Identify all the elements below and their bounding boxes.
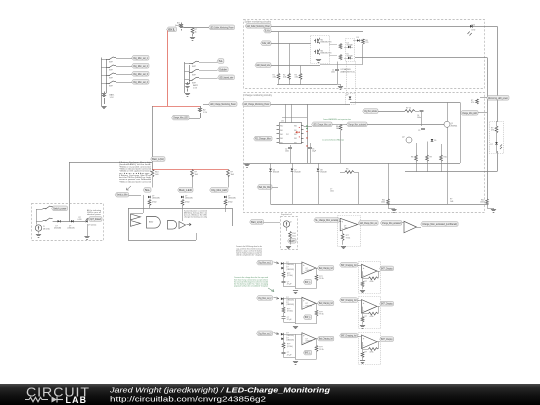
svg-text:AND: AND	[149, 221, 154, 224]
svg-text:Chg_Mon_LED: Chg_Mon_LED	[211, 188, 227, 192]
svg-text:LM393N: LM393N	[306, 305, 313, 307]
svg-text:1.5V: 1.5V	[193, 88, 198, 90]
svg-text:LED_Solder_Monitoring_Power: LED_Solder_Monitoring_Power	[210, 25, 233, 29]
svg-text:R?: R?	[365, 281, 367, 283]
svg-text:Jared Wright (jaredkwright) /: Jared Wright (jaredkwright) / LED-Charge…	[109, 385, 331, 394]
svg-text:BAT_L: BAT_L	[305, 351, 311, 355]
svg-text:RB4: RB4	[294, 142, 297, 144]
svg-text:1N4148: 1N4148	[294, 172, 300, 174]
svg-text:Solder: Solder	[219, 67, 227, 71]
svg-text:(1N4148): (1N4148)	[286, 269, 294, 271]
svg-text:97.6k: 97.6k	[319, 314, 323, 316]
svg-text:B1: B1	[168, 27, 177, 31]
svg-text:Monitoring_LED_power: Monitoring_LED_power	[488, 96, 508, 100]
svg-text:Solder_LED: Solder_LED	[262, 41, 270, 45]
svg-text:(1N4148): (1N4148)	[68, 228, 75, 230]
svg-text:SW?: SW?	[109, 70, 113, 72]
svg-text:Batt_L(/H): Batt_L(/H)	[251, 220, 262, 224]
svg-text:D?: D?	[491, 144, 493, 146]
svg-text:(1N4148): (1N4148)	[54, 228, 61, 230]
svg-text:Charge_Mon_activated: Charge_Mon_activated	[382, 221, 401, 225]
svg-text:Q2: Q2	[402, 137, 405, 139]
svg-text:0.5Ω: 0.5Ω	[78, 219, 82, 221]
svg-text:Chg_Mon_out_1: Chg_Mon_out_1	[258, 261, 272, 265]
svg-text:identical power: identical power	[87, 213, 101, 216]
svg-text:shall be completed to be "char: shall be completed to be "charging"	[236, 253, 262, 256]
svg-text:470: 470	[491, 130, 494, 132]
svg-text:(1N4148): (1N4148)	[286, 304, 294, 306]
svg-text:SL: SL	[219, 59, 224, 63]
svg-text:charge monitoring circuitry: charge monitoring circuitry	[184, 216, 207, 219]
svg-text:Chg_Mon_out_2: Chg_Mon_out_2	[258, 296, 272, 300]
svg-text:*9600) or indicated (under con: *9600) or indicated (under connected	[119, 180, 151, 183]
svg-text:1N4148: 1N4148	[320, 172, 326, 174]
svg-text:1kΩ: 1kΩ	[231, 174, 235, 176]
svg-text:(1N4148): (1N4148)	[228, 198, 236, 200]
svg-text:Op?_linked: Op?_linked	[90, 217, 102, 221]
svg-text:Charge_Mon_LED: Charge_Mon_LED	[173, 116, 188, 120]
svg-text:470Ω: 470Ω	[185, 202, 190, 204]
svg-text:Chg_Mon_out_3: Chg_Mon_out_3	[258, 331, 272, 335]
svg-text:470Ω: 470Ω	[152, 202, 157, 204]
svg-text:Batt_L(/H): Batt_L(/H)	[152, 157, 164, 161]
svg-text:Serial_to_Mon: Serial_to_Mon	[117, 193, 128, 197]
svg-text:LED: LED	[472, 29, 476, 31]
svg-text:LM?: LM?	[344, 228, 347, 230]
svg-text:R?: R?	[365, 352, 367, 354]
svg-text:1.5V: 1.5V	[110, 97, 115, 99]
svg-text:SW?: SW?	[109, 78, 113, 80]
svg-text:BAT?_Charging: BAT?_Charging	[381, 302, 393, 306]
svg-text:1N4148: 1N4148	[273, 172, 279, 174]
svg-text:100n: 100n	[417, 117, 421, 119]
svg-text:BAT_Charging_Ind: BAT_Charging_Ind	[341, 298, 357, 302]
svg-text:R7 1k: R7 1k	[406, 108, 411, 110]
svg-text:R8: R8	[411, 157, 413, 159]
svg-text:no connect/otherwise RA5 input: no connect/otherwise RA5 input	[322, 139, 344, 142]
svg-text:2N3904: 2N3904	[451, 125, 458, 127]
svg-text:100n: 100n	[331, 72, 335, 74]
svg-text:LED_biased_wire: LED_biased_wire	[256, 63, 270, 67]
svg-text:Chg_Mon_out_4: Chg_Mon_out_4	[133, 80, 148, 84]
svg-text:SW?: SW?	[192, 66, 196, 68]
svg-text:BAT_L: BAT_L	[305, 315, 311, 319]
svg-text:(MAX809LTR-G): (MAX809LTR-G)	[341, 70, 355, 73]
svg-text:D? (white): D? (white)	[88, 224, 97, 227]
svg-text:Batt_Charging_Ind: Batt_Charging_Ind	[319, 337, 333, 341]
svg-text:R2_Charge_Mon: R2_Charge_Mon	[255, 137, 271, 141]
svg-text:1N4148: 1N4148	[347, 45, 353, 47]
svg-text:BAT_Charging_Ind: BAT_Charging_Ind	[341, 334, 357, 338]
svg-text:SL_charge_Mon_activate: SL_charge_Mon_activate	[315, 218, 338, 222]
svg-text:Switch_power: Switch_power	[53, 206, 66, 210]
svg-text:470k: 470k	[370, 281, 374, 283]
svg-text:1kΩ: 1kΩ	[155, 174, 159, 176]
svg-text:LED_biased_wire: LED_biased_wire	[219, 75, 233, 79]
svg-text:470: 470	[471, 102, 474, 104]
svg-text:SL: SL	[145, 188, 151, 192]
svg-text:LED_Charge_Mon_out: LED_Charge_Mon_out	[313, 122, 331, 126]
svg-text:Charge_Mon_activated_(un/filte: Charge_Mon_activated_(un/filtered)	[422, 222, 457, 226]
svg-text:470Ω: 470Ω	[228, 202, 233, 204]
svg-text:LAB: LAB	[66, 395, 88, 405]
svg-text:470k: 470k	[370, 352, 374, 354]
svg-text:Chg_Mon_out_2: Chg_Mon_out_2	[133, 64, 148, 68]
svg-text:Connect MAX809/810 reset super: Connect MAX809/810 reset supervisor here	[323, 118, 351, 121]
svg-text:Charge_Mon_activated: Charge_Mon_activated	[348, 122, 366, 126]
svg-text:4.6k: 4.6k	[295, 77, 298, 79]
svg-text:97.6k: 97.6k	[319, 278, 323, 280]
svg-text:(1N4148): (1N4148)	[185, 198, 193, 200]
svg-text:R5: R5	[346, 169, 348, 171]
svg-text:4.6k: 4.6k	[273, 77, 276, 79]
svg-text:1kΩ: 1kΩ	[195, 174, 199, 176]
svg-text:RB2: RB2	[294, 134, 297, 136]
svg-text:Chg_Mon_out_1: Chg_Mon_out_1	[133, 56, 148, 60]
svg-text:BAT_Charging_Ind: BAT_Charging_Ind	[341, 263, 357, 267]
svg-text:SW?: SW?	[192, 74, 196, 76]
svg-text:1k: 1k	[195, 31, 197, 33]
svg-text:270: 270	[366, 42, 369, 44]
svg-text:48.5mA: 48.5mA	[43, 227, 50, 230]
svg-text:(97.6k): (97.6k)	[287, 275, 293, 277]
svg-text:Regulated cell: Regulated cell	[281, 213, 292, 216]
svg-text:LED_Charge_Monitoring_Power: LED_Charge_Monitoring_Power	[244, 102, 270, 106]
svg-text:LED_Charge_Mon_out: LED_Charge_Mon_out	[360, 221, 377, 225]
svg-text:Solder monitoring circuitry: Solder monitoring circuitry	[245, 20, 272, 23]
svg-text:(97.6k): (97.6k)	[287, 346, 293, 348]
svg-text:C5: C5	[418, 130, 420, 132]
svg-text:proposals verify to be consoli: proposals verify to be consolidated "cha…	[234, 284, 268, 287]
svg-text:1.5V: 1.5V	[203, 112, 208, 114]
svg-text:Chg_Mon_out_3: Chg_Mon_out_3	[133, 72, 148, 76]
svg-text:BAT: BAT	[289, 239, 295, 243]
svg-text:BSS138LT1G: BSS138LT1G	[321, 42, 333, 44]
svg-text:(1N4148): (1N4148)	[152, 198, 160, 200]
svg-text:BSS138LT1G: BSS138LT1G	[321, 53, 333, 55]
svg-text:R10: R10	[444, 157, 447, 159]
svg-text:(1N4148): (1N4148)	[286, 340, 294, 342]
svg-text:BAT?_Charging: BAT?_Charging	[381, 337, 393, 341]
svg-text:97.6k: 97.6k	[319, 349, 323, 351]
svg-text:SW?: SW?	[109, 62, 113, 64]
svg-text:RB3: RB3	[294, 138, 297, 140]
svg-text:4.6k: 4.6k	[283, 77, 286, 79]
svg-text:B_Vcc: B_Vcc	[265, 29, 270, 33]
svg-text:RB0: RB0	[294, 126, 297, 128]
svg-text:D3: D3	[357, 37, 359, 39]
svg-text:Batt_Dis_Mon: Batt_Dis_Mon	[259, 185, 272, 189]
svg-text:R9: R9	[430, 157, 432, 159]
svg-text:SW?: SW?	[109, 86, 113, 88]
svg-text:http://circuitlab.com/cnvrg243: http://circuitlab.com/cnvrg243856g2	[110, 394, 266, 403]
svg-text:100n: 100n	[285, 151, 289, 153]
svg-text:BAT?_Charging: BAT?_Charging	[381, 266, 393, 270]
svg-text:Charge monitoring circuitry: Charge monitoring circuitry	[245, 94, 273, 97]
svg-text:470k: 470k	[370, 316, 374, 318]
svg-text:LED_Solder_Monitoring_Power: LED_Solder_Monitoring_Power	[247, 24, 270, 28]
svg-text:1N4148: 1N4148	[347, 56, 353, 58]
svg-text:D9: D9	[434, 140, 436, 142]
svg-text:100n: 100n	[330, 190, 334, 192]
svg-text:Batt_Charging_Ind: Batt_Charging_Ind	[319, 266, 333, 270]
svg-text:D?: D?	[346, 95, 348, 97]
svg-text:LM393N: LM393N	[306, 270, 313, 272]
svg-text:LED_Charge_Monitoring_Power: LED_Charge_Monitoring_Power	[210, 102, 236, 106]
svg-text:I2: I2	[290, 222, 292, 224]
svg-text:(97.6k): (97.6k)	[287, 311, 293, 313]
svg-text:BAT_L: BAT_L	[305, 280, 311, 284]
svg-text:Chg_Mon_activate: Chg_Mon_activate	[364, 109, 377, 113]
svg-text:LM393N: LM393N	[306, 341, 313, 343]
svg-text:Batt_LED: Batt_LED	[179, 188, 192, 192]
svg-text:Batt_Charging_Ind: Batt_Charging_Ind	[319, 301, 333, 305]
svg-text:R?: R?	[365, 316, 367, 318]
svg-text:100k: 100k	[480, 202, 484, 204]
svg-text:Charge_Mon_LED: Charge_Mon_LED	[462, 111, 477, 115]
svg-text:97.6k: 97.6k	[346, 237, 350, 239]
svg-text:100k: 100k	[381, 202, 385, 204]
